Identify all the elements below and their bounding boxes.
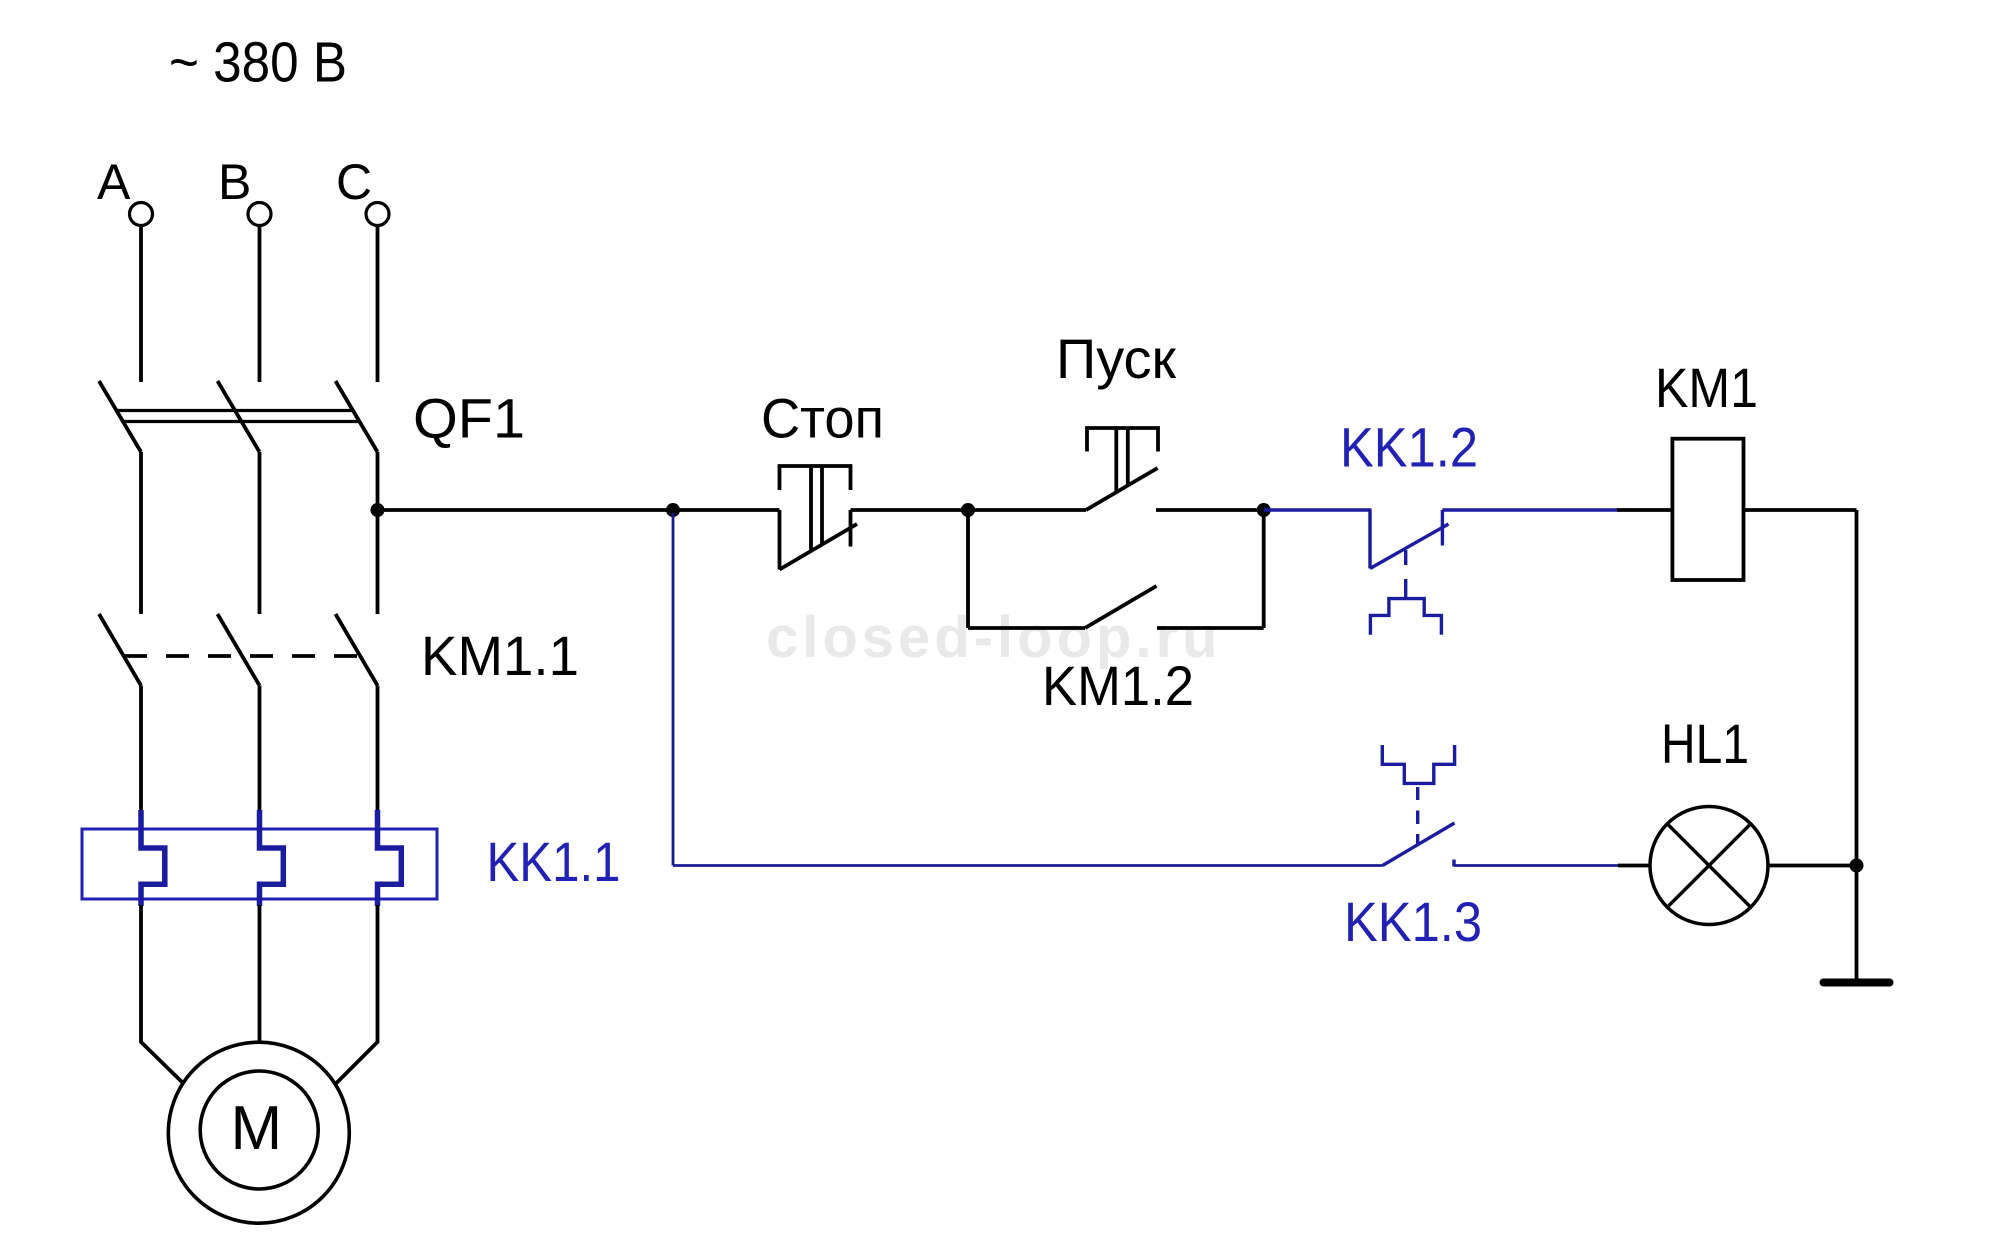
svg-text:QF1: QF1 [413, 387, 525, 450]
pushbutton Pusk plunger left line [1114, 428, 1118, 492]
wire KM1.1 to KK1.1 phase A [139, 686, 143, 813]
wire Stop to Pusk node [851, 508, 969, 512]
node Pusk right [1257, 503, 1271, 517]
wire KK1.3 to lamp black part [1618, 864, 1650, 868]
KM1.2 branch left horizontal [968, 626, 1085, 630]
wire branch vertical blue [672, 513, 675, 866]
QF1 linkage bar upper [117, 409, 354, 412]
contactor KM1.1 pole A blade [99, 614, 141, 686]
svg-text:M: M [231, 1094, 283, 1163]
terminal phase B [248, 203, 271, 226]
node Pusk left [961, 503, 975, 517]
terminal phase A [130, 203, 153, 226]
pushbutton Stop plunger right line [820, 466, 824, 545]
terminal phase C [366, 203, 389, 226]
lamp HL1 cross [1667, 824, 1750, 907]
pushbutton Stop NC left pillar [778, 510, 782, 570]
wire phase C to QF1 [376, 226, 380, 383]
svg-text:KM1: KM1 [1655, 356, 1758, 419]
svg-text:C: C [336, 154, 372, 210]
contactor coil KM1 [1672, 439, 1743, 580]
pushbutton Pusk plunger right line [1126, 428, 1130, 485]
wire control bus from node C to Stop [378, 508, 780, 512]
svg-text:B: B [218, 154, 251, 210]
svg-text:~ 380 В: ~ 380 В [169, 31, 347, 95]
pushbutton Stop cap bracket [780, 466, 851, 490]
motor M inner circle [200, 1071, 318, 1189]
wire QF1 to KM1.1 phase B [258, 452, 262, 614]
node right rail lamp junction [1850, 859, 1864, 873]
wire KK1.1 to motor phase C [336, 905, 378, 1084]
KK1.1 heater element phase B [260, 810, 284, 906]
svg-text:A: A [97, 154, 131, 210]
wire KK1.2 to coil blue part [1442, 508, 1617, 511]
KK1.3 thermal actuator hat [1382, 745, 1454, 783]
thermal contact KK1.2 blade [1370, 524, 1449, 569]
right rail vertical [1855, 510, 1859, 866]
pushbutton Stop plunger left line [809, 466, 813, 551]
KK1.2 actuator dashed link [1404, 550, 1407, 599]
wire QF1 to KM1.1 phase A [139, 452, 143, 614]
KM1.2 branch left vertical [966, 510, 970, 628]
wire KK1.1 to motor phase A [141, 905, 184, 1084]
svg-text:KM1.2: KM1.2 [1042, 654, 1194, 717]
KM1.2 branch right horizontal [1157, 626, 1264, 630]
wire KM1.1 to KK1.1 phase B [258, 686, 262, 813]
pushbutton Pusk cap bracket [1087, 428, 1158, 452]
pushbutton Stop NC right pillar [849, 510, 853, 547]
QF1 linkage bar lower [123, 420, 360, 423]
wire node to Pusk blade [968, 508, 1086, 512]
svg-text:KK1.1: KK1.1 [487, 830, 621, 893]
svg-text:KM1.1: KM1.1 [421, 624, 579, 687]
wire coil to right rail [1744, 508, 1857, 512]
KK1.1 heater element phase A [141, 810, 165, 906]
contactor KM1.1 pole C blade [336, 614, 378, 686]
wire phase A to QF1 [139, 226, 143, 383]
KM1.1 mechanical link dashed [124, 654, 362, 658]
auxiliary contact KM1.2 blade [1085, 586, 1157, 628]
wire lamp to right rail [1768, 864, 1857, 868]
circuit breaker QF1 pole B blade [218, 381, 260, 452]
node control tap on phase C [371, 503, 385, 517]
svg-text:KK1.2: KK1.2 [1340, 416, 1478, 479]
wire KK1.2 to coil black part [1617, 508, 1672, 512]
wire KM1.1 to KK1.1 phase C [376, 686, 380, 813]
contactor KM1.1 pole B blade [218, 614, 260, 686]
KK1.3 actuator dashed link [1416, 787, 1419, 844]
KM1.2 branch right vertical [1262, 510, 1266, 628]
svg-text:HL1: HL1 [1661, 712, 1749, 775]
svg-text:Пуск: Пуск [1056, 327, 1176, 390]
ground [1824, 979, 1890, 987]
thermal contact KK1.3 right stub [1452, 860, 1455, 867]
wire KK1.3 to lamp blue part [1454, 864, 1618, 867]
wire phase B to QF1 [258, 226, 262, 383]
KK1.1 heater element phase C [378, 810, 402, 906]
pushbutton Stop NC blade [780, 524, 858, 570]
pushbutton Pusk NO blade [1086, 468, 1158, 510]
wire branch horizontal blue to KK1.3 [673, 864, 1383, 867]
wire node to KK1.2 blue [1264, 508, 1372, 511]
wire KK1.1 to motor phase B [258, 905, 262, 1043]
svg-text:KK1.3: KK1.3 [1344, 890, 1482, 953]
thermal contact KK1.2 left pillar [1368, 510, 1371, 569]
svg-text:Стоп: Стоп [761, 387, 884, 450]
thermal relay KK1.1 box [82, 829, 437, 899]
KK1.2 thermal actuator hat [1370, 599, 1441, 635]
wire QF1 to KM1.1 phase C [376, 452, 380, 614]
circuit breaker QF1 pole A blade [99, 381, 141, 452]
lamp HL1 circle [1650, 807, 1768, 925]
motor M outer circle [168, 1042, 349, 1223]
wire rail to ground [1855, 866, 1859, 980]
thermal contact KK1.2 right pillar [1441, 510, 1444, 546]
wire Pusk right to node [1156, 508, 1264, 512]
node branch to KK1.3 [666, 503, 680, 517]
thermal contact KK1.3 blade [1383, 823, 1455, 866]
circuit breaker QF1 pole C blade [336, 381, 378, 452]
